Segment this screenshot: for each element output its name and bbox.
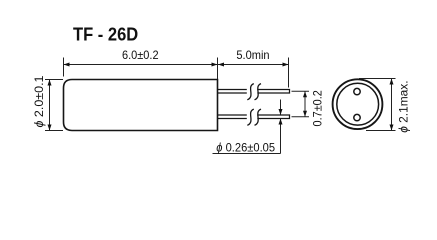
- dimension 6.0±0.2 line: [64, 64, 218, 66]
- dimension φ2.1max line: [391, 79, 393, 131]
- svg-text:ϕ 2.1max.: ϕ 2.1max.: [397, 80, 411, 132]
- break marks lower lead: [247, 109, 261, 125]
- upper lead: [218, 90, 290, 94]
- leader arrows φ0.26 (lead diameter): [280, 100, 282, 116]
- dimension 0.7±0.2 extension lines (lead pitch): [292, 91, 310, 117]
- pin bottom: [354, 114, 360, 120]
- lower lead: [218, 115, 290, 119]
- leader horizontal line: [213, 153, 281, 155]
- dimension φ2.0±0.1 extension lines: [45, 80, 63, 131]
- svg-text:ϕ 0.26±0.05: ϕ 0.26±0.05: [216, 141, 275, 155]
- end view inner circle: [337, 83, 379, 125]
- dimension 5.0min extension line: [288, 58, 290, 88]
- pin top: [354, 88, 360, 94]
- svg-text:TF - 26D: TF - 26D: [73, 24, 138, 45]
- svg-text:0.7±0.2: 0.7±0.2: [311, 90, 325, 126]
- svg-text:6.0±0.2: 6.0±0.2: [122, 48, 159, 62]
- dimension φ2.1max extension lines: [359, 79, 396, 131]
- svg-text:5.0min: 5.0min: [236, 48, 269, 62]
- dimension 0.7±0.2 line: [304, 91, 306, 117]
- svg-text:ϕ 2.0±0.1: ϕ 2.0±0.1: [32, 76, 46, 128]
- dimension 6.0±0.2 extension lines: [64, 58, 218, 80]
- end view outer circle: [333, 79, 383, 129]
- dimension 5.0min line: [218, 64, 289, 66]
- crystal body (side view, cylinder): [64, 80, 218, 131]
- break marks upper lead: [247, 84, 261, 100]
- dimension φ2.0±0.1 line: [49, 80, 51, 131]
